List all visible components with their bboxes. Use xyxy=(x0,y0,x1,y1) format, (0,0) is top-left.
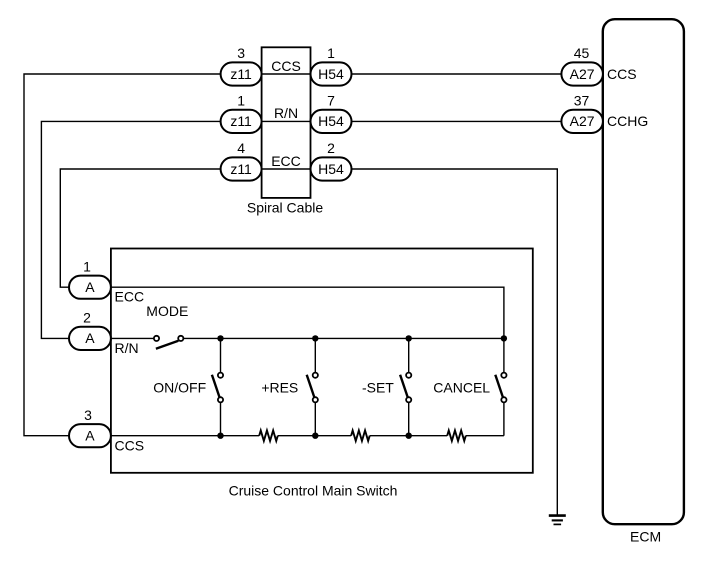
svg-text:-SET: -SET xyxy=(362,379,394,395)
spiral cable box xyxy=(262,47,311,198)
connector z11 pin3 xyxy=(221,62,262,85)
svg-text:H54: H54 xyxy=(318,66,344,82)
wire R/N from z11 pin1 left and down to A pin2 xyxy=(41,121,220,338)
svg-text:Cruise Control Main Switch: Cruise Control Main Switch xyxy=(229,482,398,498)
switch ON/OFF xyxy=(220,338,222,435)
connector z11 pin4 xyxy=(221,157,262,180)
svg-text:A27: A27 xyxy=(570,113,595,129)
wire CCS from z11 pin3 left and down to A pin3 xyxy=(24,74,221,436)
switch +RES xyxy=(314,338,316,435)
ECM box xyxy=(603,19,684,524)
svg-text:2: 2 xyxy=(83,310,91,326)
svg-text:R/N: R/N xyxy=(274,105,298,121)
svg-text:CANCEL: CANCEL xyxy=(433,379,490,395)
wire CCS from H54 pin1 to ECM A27 pin45 xyxy=(352,73,562,75)
svg-text:3: 3 xyxy=(84,407,92,423)
svg-text:2: 2 xyxy=(327,140,335,156)
svg-text:ON/OFF: ON/OFF xyxy=(153,379,206,395)
svg-text:A27: A27 xyxy=(570,66,595,82)
svg-text:4: 4 xyxy=(237,140,245,156)
connector A pin1 xyxy=(69,276,111,299)
junction CCS-+RES xyxy=(312,433,318,439)
svg-text:z11: z11 xyxy=(230,161,252,177)
wire ECC from H54 pin2 to ground xyxy=(352,169,558,516)
connector H54 pin1 xyxy=(311,62,352,85)
svg-text:7: 7 xyxy=(327,92,335,108)
svg-text:MODE: MODE xyxy=(146,303,188,319)
svg-text:A: A xyxy=(85,330,95,346)
connector A27 pin37 xyxy=(561,110,603,133)
wire CCHG from H54 pin7 to ECM A27 pin37 xyxy=(352,120,562,122)
svg-text:CCHG: CCHG xyxy=(607,113,648,129)
junction CCS--SET xyxy=(406,433,412,439)
svg-text:H54: H54 xyxy=(318,161,344,177)
connector H54 pin7 xyxy=(311,110,352,133)
junction R/N--SET xyxy=(406,335,412,341)
switch MODE xyxy=(154,336,184,341)
svg-text:CCS: CCS xyxy=(271,58,301,74)
connector A pin2 xyxy=(69,327,111,350)
wire ECC row through spiral cable box xyxy=(262,168,311,170)
connector H54 pin2 xyxy=(311,157,352,180)
svg-text:A: A xyxy=(85,428,95,444)
svg-text:1: 1 xyxy=(237,92,245,108)
svg-text:H54: H54 xyxy=(318,113,344,129)
junction R/N-+RES xyxy=(312,335,318,341)
svg-text:ECM: ECM xyxy=(630,529,661,545)
svg-text:+RES: +RES xyxy=(261,379,298,395)
svg-text:CCS: CCS xyxy=(115,437,145,453)
svg-text:ECC: ECC xyxy=(271,153,301,169)
svg-text:Spiral Cable: Spiral Cable xyxy=(247,200,323,216)
wire R/N row inside switch box (left of MODE switch) xyxy=(111,337,154,339)
cruise control main switch box xyxy=(111,249,533,473)
junction CCS-ON/OFF xyxy=(217,433,223,439)
svg-text:1: 1 xyxy=(83,259,91,275)
connector A pin3 xyxy=(69,424,111,447)
wire ECC row inside switch box to CANCEL branch xyxy=(111,287,504,338)
wire ECC from z11 pin4 left and down to A pin1 xyxy=(60,169,220,287)
junction R/N-CANCEL-ECC xyxy=(501,335,507,341)
wire R/N row inside switch box (right of MODE switch) xyxy=(183,337,504,339)
connector z11 pin1 xyxy=(221,110,262,133)
switch -SET xyxy=(408,338,410,435)
svg-text:R/N: R/N xyxy=(115,340,139,356)
resistor between +RES and -SET xyxy=(351,431,370,441)
svg-text:CCS: CCS xyxy=(607,66,637,82)
connector A27 pin45 xyxy=(561,62,603,85)
resistor between -SET and CANCEL xyxy=(447,431,466,441)
svg-text:1: 1 xyxy=(327,45,335,61)
svg-text:45: 45 xyxy=(574,45,590,61)
svg-text:37: 37 xyxy=(574,92,590,108)
svg-text:z11: z11 xyxy=(230,66,252,82)
wire CCS row inside switch box with resistors xyxy=(111,435,504,437)
switch CANCEL xyxy=(503,338,505,435)
wire CCS row through spiral cable box xyxy=(262,73,311,75)
resistor between ON/OFF and +RES xyxy=(259,431,278,441)
junction R/N-ON/OFF xyxy=(217,335,223,341)
ground xyxy=(549,516,566,525)
svg-text:A: A xyxy=(85,279,95,295)
wire R/N row through spiral cable box xyxy=(262,120,311,122)
svg-text:z11: z11 xyxy=(230,113,252,129)
svg-text:ECC: ECC xyxy=(115,289,145,305)
svg-text:3: 3 xyxy=(237,45,245,61)
